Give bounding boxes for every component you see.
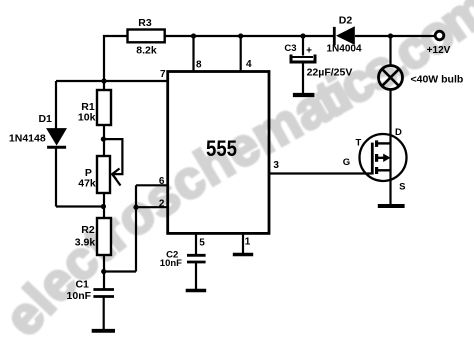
svg-text:3.9k: 3.9k — [75, 237, 96, 249]
svg-text:5: 5 — [199, 237, 205, 248]
svg-text:7: 7 — [160, 69, 166, 80]
svg-text:22µF/25V: 22µF/25V — [307, 67, 353, 79]
svg-text:555: 555 — [206, 136, 237, 161]
svg-text:C1: C1 — [75, 278, 89, 290]
svg-text:10nF: 10nF — [160, 258, 182, 269]
svg-text:D1: D1 — [38, 113, 52, 125]
svg-text:2: 2 — [159, 199, 165, 210]
svg-text:1N4004: 1N4004 — [326, 44, 361, 55]
svg-text:D2: D2 — [339, 15, 353, 27]
svg-text:1: 1 — [245, 236, 251, 247]
svg-text:C3: C3 — [284, 43, 296, 54]
svg-text:S: S — [399, 181, 405, 192]
svg-text:8: 8 — [196, 60, 202, 71]
svg-text:8.2k: 8.2k — [136, 45, 157, 57]
svg-text:4: 4 — [246, 59, 252, 70]
svg-text:T: T — [355, 138, 361, 149]
svg-text:R2: R2 — [81, 224, 95, 236]
svg-text:D: D — [395, 127, 402, 138]
svg-text:1N4148: 1N4148 — [9, 133, 46, 145]
svg-text:+12V: +12V — [427, 45, 451, 56]
svg-text:G: G — [343, 157, 350, 168]
svg-text:<40W bulb: <40W bulb — [411, 74, 464, 86]
svg-text:R3: R3 — [138, 17, 152, 29]
svg-text:+: + — [306, 45, 312, 56]
svg-text:47k: 47k — [78, 178, 96, 190]
svg-text:10nF: 10nF — [67, 290, 92, 302]
svg-text:6: 6 — [159, 176, 165, 187]
svg-text:10k: 10k — [78, 112, 96, 124]
svg-text:3: 3 — [273, 160, 279, 171]
